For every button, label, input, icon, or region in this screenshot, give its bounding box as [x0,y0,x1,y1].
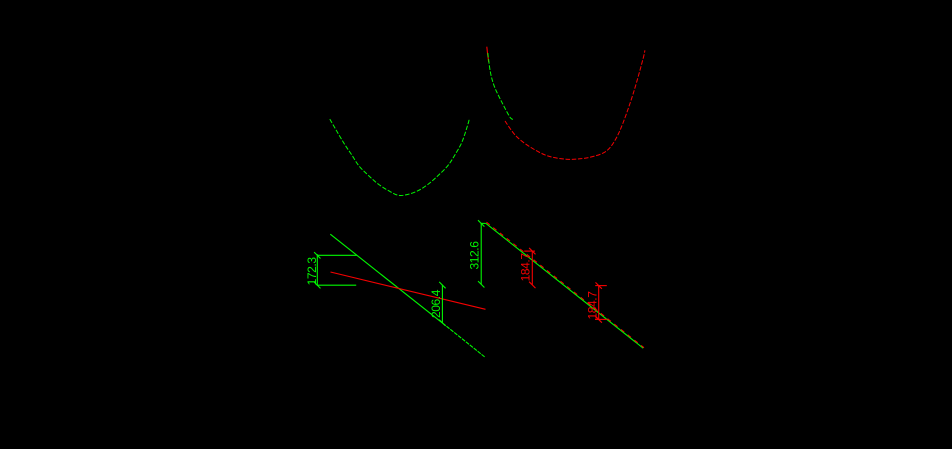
svg-text:206.4: 206.4 [429,289,443,318]
svg-text:312.6: 312.6 [467,241,481,270]
svg-text:172.3: 172.3 [305,257,319,286]
svg-text:184.7: 184.7 [586,291,600,320]
svg-text:184.7: 184.7 [519,253,533,282]
